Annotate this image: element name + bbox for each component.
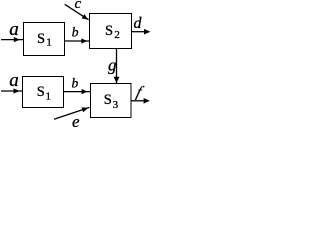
svg-text:S: S [37, 84, 45, 100]
wire d (output of S2) [132, 29, 151, 35]
wire f (output of S3) [131, 98, 150, 104]
svg-text:a: a [9, 19, 19, 40]
block S3 [91, 84, 132, 118]
svg-text:e: e [72, 112, 80, 131]
wire g (S2 down to S3) [114, 49, 120, 84]
svg-text:S: S [105, 23, 113, 39]
svg-text:1: 1 [46, 91, 52, 103]
svg-text:d: d [134, 15, 143, 32]
svg-text:3: 3 [113, 99, 119, 111]
wire b (S1 bottom to S3) [64, 89, 91, 94]
svg-text:f: f [134, 84, 146, 101]
wire b (S1 top to S2) [65, 38, 90, 43]
svg-text:S: S [37, 31, 45, 47]
block S1 (bottom) [23, 77, 64, 108]
wire a (top input arrow into S1 top) [1, 37, 23, 42]
wire a (bottom input arrow into S1 bottom) [1, 88, 23, 93]
wire e (diagonal input into S3) [54, 107, 90, 119]
wire c (diagonal input into S2) [65, 4, 89, 19]
svg-text:b: b [72, 76, 79, 91]
svg-text:1: 1 [46, 37, 52, 49]
svg-text:S: S [104, 92, 112, 108]
svg-text:a: a [9, 70, 19, 91]
block S2 [90, 14, 132, 49]
svg-text:c: c [75, 0, 82, 12]
block S1 (top) [24, 23, 65, 56]
svg-text:b: b [72, 25, 79, 40]
svg-text:g: g [108, 56, 117, 75]
svg-text:2: 2 [114, 29, 120, 41]
